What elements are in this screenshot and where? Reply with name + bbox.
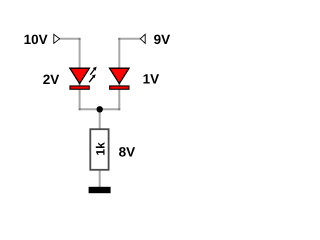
wire: resistor bottom to ground xyxy=(99,169,101,188)
wire: right branch vertical (anode drop through LED) xyxy=(118,39,120,110)
resistor R1 body xyxy=(90,129,108,170)
wire: 9V port to right branch top corner xyxy=(119,38,140,40)
svg-text:10V: 10V xyxy=(24,32,48,47)
input port 9V (right, triangle) xyxy=(140,34,145,43)
ground symbol xyxy=(89,187,111,193)
wire corner dot: right top xyxy=(118,38,120,40)
LED D1 (left branch, 2V) xyxy=(70,68,90,89)
input port 10V (left, triangle) xyxy=(54,34,60,43)
LED D1 emission arrow lower xyxy=(89,74,96,82)
svg-text:9V: 9V xyxy=(154,32,171,47)
LED D1 emission arrow upper xyxy=(90,67,96,75)
junction node (cathodes to resistor) xyxy=(97,106,103,112)
wire: left branch vertical (anode drop through LED) xyxy=(79,39,81,110)
wire corner dot: right bottom xyxy=(118,108,120,110)
svg-text:8V: 8V xyxy=(119,145,136,160)
wire: bottom rail joining both cathodes xyxy=(80,108,120,110)
wire: junction down to resistor top xyxy=(99,109,101,130)
wire corner dot: left bottom xyxy=(79,108,81,110)
svg-text:2V: 2V xyxy=(43,72,60,87)
wire corner dot: left top xyxy=(79,38,81,40)
wire: 10V port to left branch top corner xyxy=(60,38,80,40)
svg-text:1V: 1V xyxy=(143,71,160,86)
svg-text:1k: 1k xyxy=(93,142,107,156)
LED D2 (right branch, 1V) xyxy=(110,68,130,89)
